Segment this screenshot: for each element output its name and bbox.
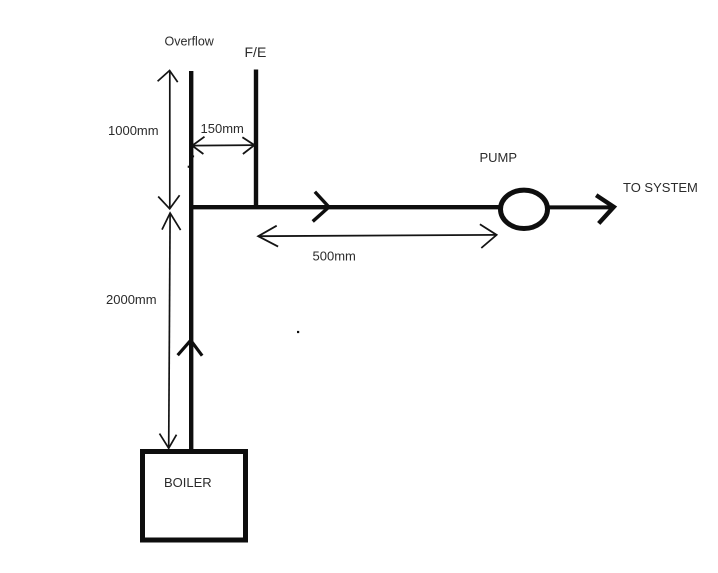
dimension line 150mm [192, 137, 254, 154]
dimension line 1000mm [158, 71, 180, 209]
wire pump outlet pipe [547, 205, 613, 209]
dimension line 2000mm [160, 213, 181, 448]
boiler box [143, 452, 246, 541]
svg-text:500mm: 500mm [313, 249, 356, 264]
pump circle [501, 190, 548, 228]
svg-text:Overflow: Overflow [165, 34, 215, 48]
svg-text:F/E: F/E [245, 44, 267, 60]
flow arrow on horizontal pipe [314, 193, 329, 220]
flow arrow on vertical pipe [179, 340, 202, 354]
wire horizontal pipe to pump [189, 205, 502, 209]
svg-text:150mm: 150mm [201, 121, 244, 136]
wire F/E pipe (vertical) [254, 70, 258, 207]
stray nub right of pipe [193, 155, 195, 157]
svg-text:BOILER: BOILER [164, 475, 212, 490]
outlet arrowhead to system [598, 196, 614, 221]
wire overflow pipe (vertical) [189, 71, 193, 450]
svg-text:2000mm: 2000mm [106, 292, 157, 307]
stray nub left of pipe [188, 166, 190, 168]
svg-text:TO SYSTEM: TO SYSTEM [623, 180, 698, 195]
svg-text:1000mm: 1000mm [108, 123, 159, 138]
stray dot [297, 331, 299, 333]
svg-text:PUMP: PUMP [480, 150, 518, 165]
dimension line 500mm [258, 224, 496, 248]
